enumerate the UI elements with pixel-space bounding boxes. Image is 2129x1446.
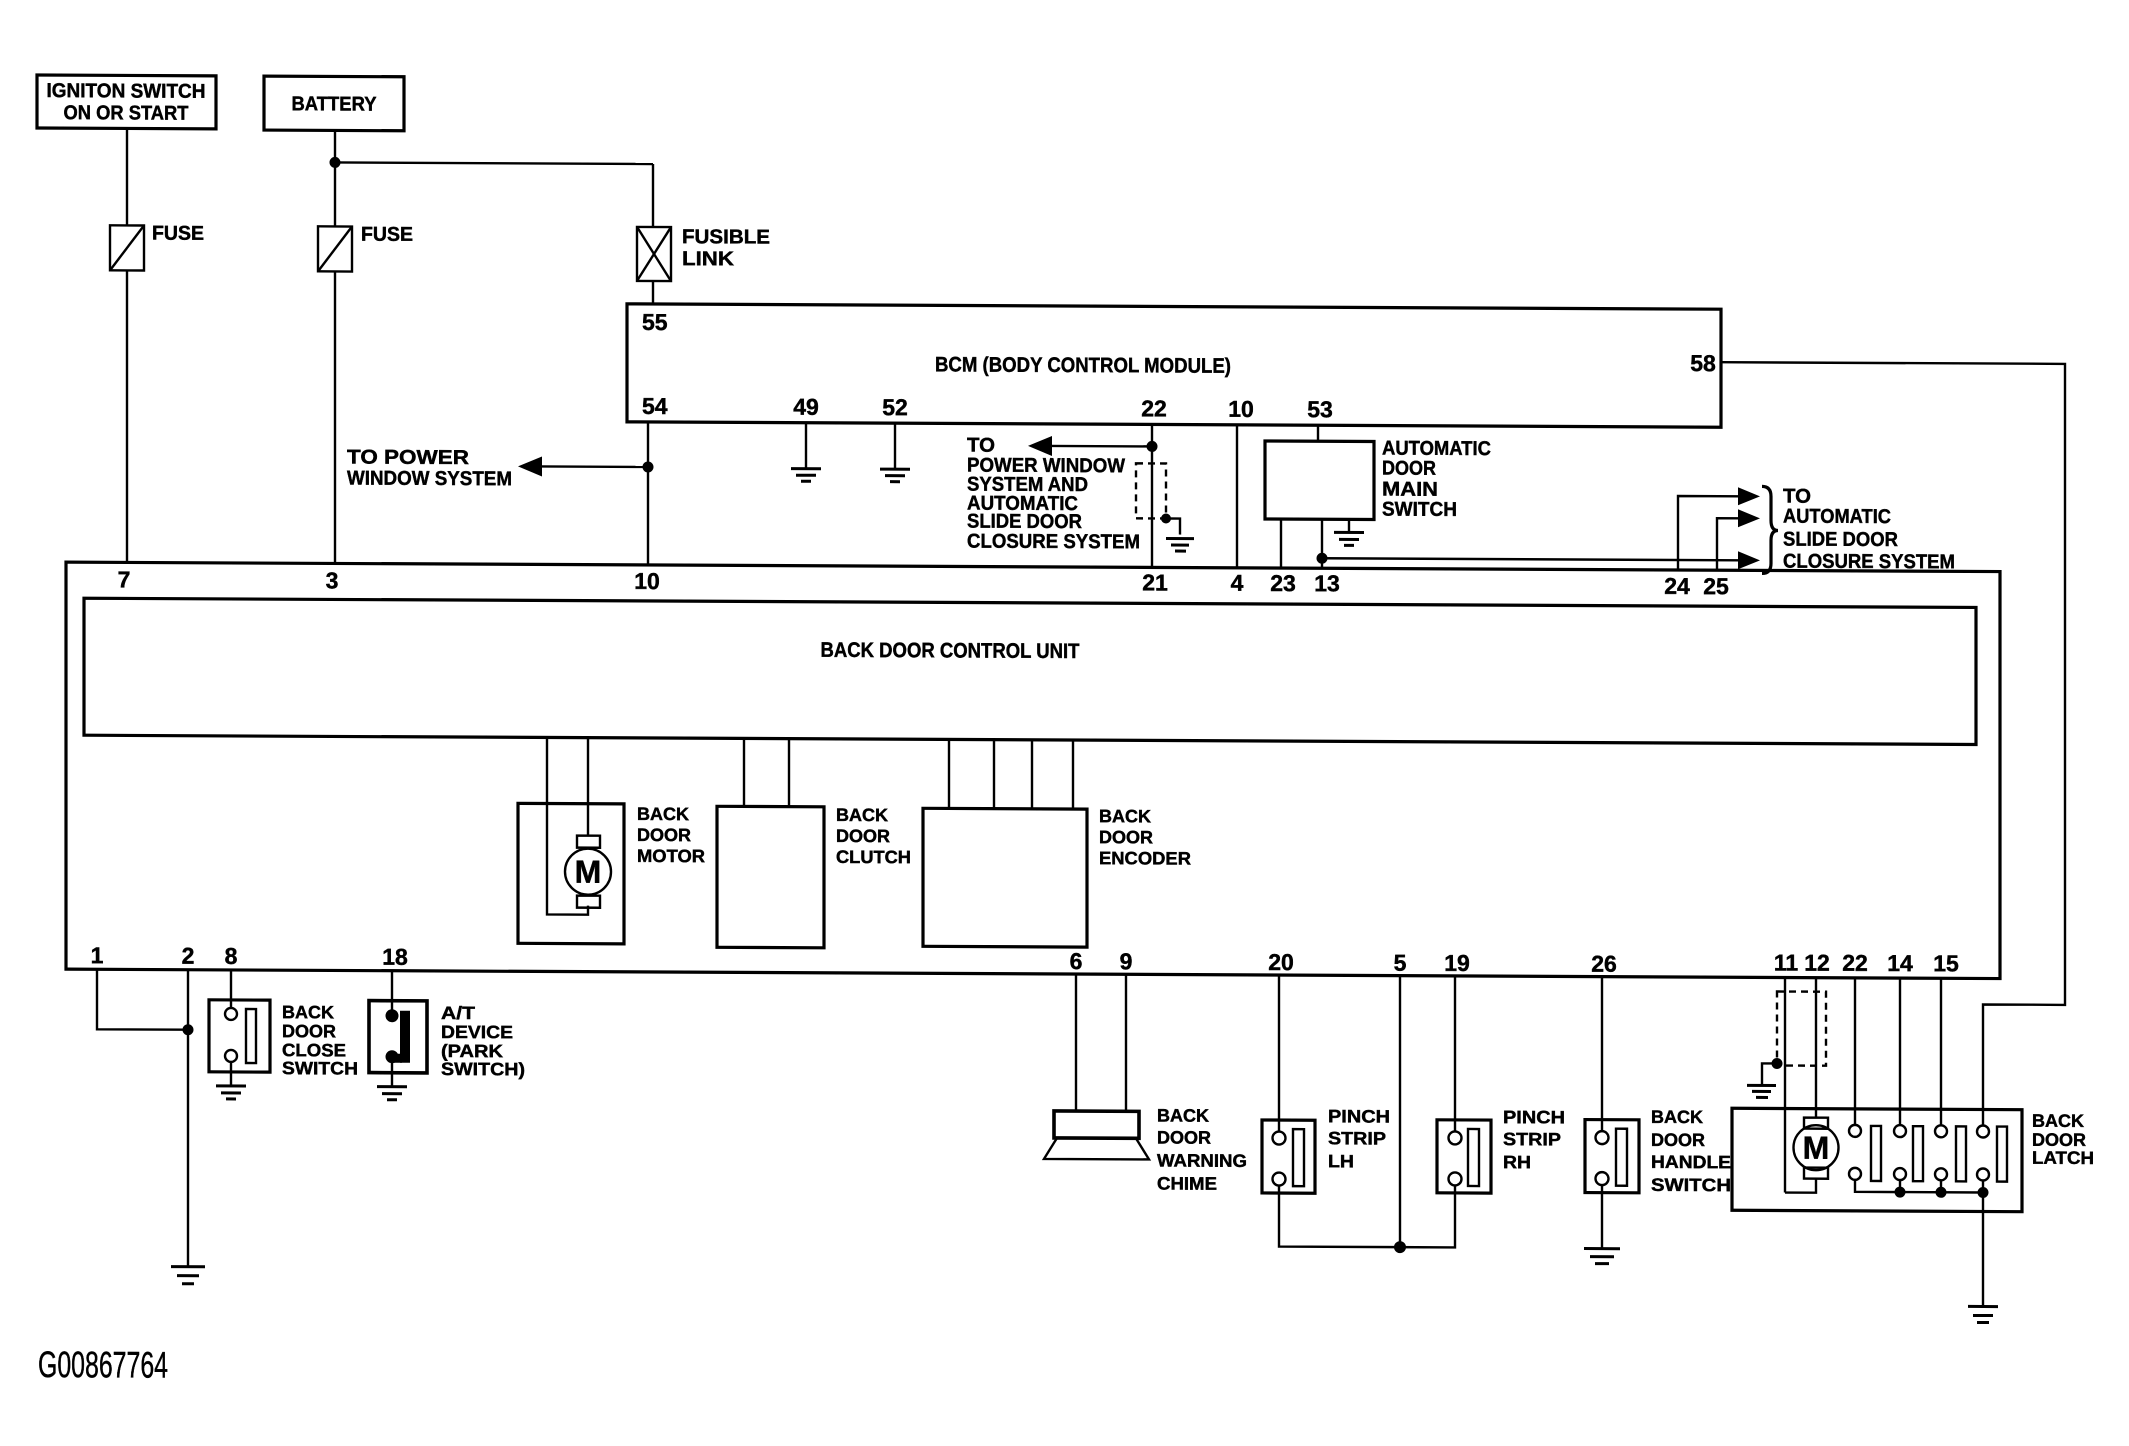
svg-text:13: 13 <box>1314 570 1340 596</box>
svg-text:AUTOMATIC: AUTOMATIC <box>1783 506 1891 529</box>
svg-text:FUSE: FUSE <box>361 224 413 246</box>
svg-text:LINK: LINK <box>682 248 735 270</box>
svg-text:DOOR: DOOR <box>1157 1127 1211 1147</box>
svg-text:BACK: BACK <box>2032 1111 2084 1131</box>
svg-text:FUSE: FUSE <box>152 223 204 245</box>
svg-text:23: 23 <box>1270 570 1296 596</box>
svg-text:DOOR: DOOR <box>836 826 890 846</box>
svg-text:TO: TO <box>1783 486 1811 508</box>
svg-text:BACK: BACK <box>282 1002 334 1022</box>
svg-text:TO POWER: TO POWER <box>347 446 470 469</box>
svg-text:5: 5 <box>1394 950 1407 976</box>
svg-text:STRIP: STRIP <box>1328 1128 1386 1148</box>
svg-text:6: 6 <box>1070 948 1083 974</box>
svg-text:IGNITON SWITCH: IGNITON SWITCH <box>46 80 205 103</box>
svg-text:BACK: BACK <box>1099 806 1151 826</box>
svg-text:LATCH: LATCH <box>2032 1148 2094 1168</box>
svg-text:26: 26 <box>1591 951 1617 977</box>
svg-text:DOOR: DOOR <box>637 825 691 845</box>
svg-text:9: 9 <box>1120 948 1133 974</box>
svg-text:PINCH: PINCH <box>1328 1106 1390 1126</box>
svg-text:21: 21 <box>1142 569 1168 595</box>
svg-text:53: 53 <box>1307 396 1333 422</box>
svg-text:WINDOW SYSTEM: WINDOW SYSTEM <box>347 467 512 490</box>
svg-text:DOOR: DOOR <box>282 1021 336 1041</box>
svg-text:M: M <box>575 854 602 890</box>
svg-text:SWITCH): SWITCH) <box>441 1059 525 1079</box>
svg-text:FUSIBLE: FUSIBLE <box>682 226 770 248</box>
svg-text:25: 25 <box>1703 573 1729 599</box>
svg-text:CLOSURE SYSTEM: CLOSURE SYSTEM <box>967 531 1140 554</box>
svg-text:BATTERY: BATTERY <box>291 93 377 115</box>
svg-text:CHIME: CHIME <box>1157 1173 1217 1193</box>
svg-text:M: M <box>1803 1130 1830 1166</box>
svg-text:15: 15 <box>1933 950 1959 976</box>
svg-text:55: 55 <box>642 309 668 335</box>
svg-text:STRIP: STRIP <box>1503 1129 1561 1149</box>
svg-text:22: 22 <box>1141 395 1167 421</box>
svg-text:LH: LH <box>1328 1151 1354 1171</box>
svg-text:A/T: A/T <box>441 1003 475 1023</box>
svg-text:ON OR START: ON OR START <box>63 102 188 125</box>
svg-text:BACK: BACK <box>637 804 689 824</box>
svg-text:3: 3 <box>326 567 339 593</box>
svg-text:ENCODER: ENCODER <box>1099 848 1191 868</box>
svg-text:SLIDE DOOR: SLIDE DOOR <box>1783 529 1899 552</box>
svg-text:7: 7 <box>118 566 131 592</box>
svg-text:BACK: BACK <box>1651 1107 1703 1127</box>
svg-text:10: 10 <box>1228 396 1254 422</box>
svg-text:RH: RH <box>1503 1152 1531 1172</box>
svg-text:G00867764: G00867764 <box>38 1344 168 1386</box>
svg-text:DOOR: DOOR <box>1651 1130 1705 1150</box>
svg-text:WARNING: WARNING <box>1157 1150 1247 1170</box>
svg-text:SWITCH: SWITCH <box>282 1058 358 1078</box>
svg-text:11: 11 <box>1774 949 1799 975</box>
svg-text:12: 12 <box>1804 950 1830 976</box>
svg-text:58: 58 <box>1690 350 1716 376</box>
svg-text:MOTOR: MOTOR <box>637 846 705 866</box>
svg-text:DOOR: DOOR <box>1099 827 1153 847</box>
svg-text:1: 1 <box>91 942 104 968</box>
svg-text:54: 54 <box>642 393 668 419</box>
svg-text:BCM (BODY CONTROL MODULE): BCM (BODY CONTROL MODULE) <box>935 353 1231 377</box>
svg-text:49: 49 <box>793 394 819 420</box>
svg-text:BACK: BACK <box>1157 1105 1209 1125</box>
svg-text:4: 4 <box>1231 570 1244 596</box>
svg-text:SWITCH: SWITCH <box>1382 499 1457 521</box>
svg-text:52: 52 <box>882 394 908 420</box>
svg-text:14: 14 <box>1887 950 1913 976</box>
svg-text:8: 8 <box>225 943 238 969</box>
svg-text:18: 18 <box>382 944 408 970</box>
svg-text:2: 2 <box>182 943 195 969</box>
svg-text:BACK DOOR CONTROL UNIT: BACK DOOR CONTROL UNIT <box>821 639 1080 663</box>
svg-text:10: 10 <box>634 568 660 594</box>
svg-text:DEVICE: DEVICE <box>441 1022 513 1042</box>
svg-text:PINCH: PINCH <box>1503 1107 1565 1127</box>
svg-text:MAIN: MAIN <box>1382 479 1438 501</box>
svg-text:19: 19 <box>1444 950 1470 976</box>
svg-text:24: 24 <box>1664 573 1690 599</box>
svg-text:20: 20 <box>1268 949 1294 975</box>
svg-text:CLUTCH: CLUTCH <box>836 847 911 867</box>
svg-text:DOOR: DOOR <box>1382 458 1437 480</box>
svg-text:22: 22 <box>1842 950 1868 976</box>
svg-text:SWITCH: SWITCH <box>1651 1175 1731 1195</box>
svg-text:BACK: BACK <box>836 805 888 825</box>
svg-text:HANDLE: HANDLE <box>1651 1152 1731 1172</box>
svg-text:TO: TO <box>967 435 995 457</box>
